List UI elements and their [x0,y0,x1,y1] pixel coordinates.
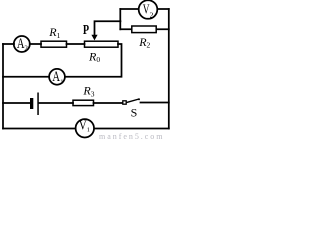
resistor R0 (rheostat body) [85,41,119,47]
wire: loop bottom edge (R2 wire) [120,28,169,30]
wire: top branch left of A2 [3,43,14,45]
voltmeter V1 [76,119,94,137]
svg-text:S: S [131,105,138,119]
wire: battery line from left rail [3,102,30,104]
ammeter A1 [49,69,65,85]
switch lever end dot [138,98,140,100]
svg-text:2: 2 [24,45,28,53]
battery cell positive long thin plate [37,93,39,116]
resistor R2 [132,26,156,33]
ammeter A2 [14,36,30,52]
wire: R1 to R0 [67,43,85,45]
svg-text:2: 2 [150,10,154,19]
wire: bottom V1 line [3,128,169,130]
wire: loop top edge [120,8,169,10]
svg-text:manfen5.com: manfen5.com [99,132,163,141]
svg-text:A: A [52,69,60,85]
switch lever [127,99,140,103]
wiper P wire with elbow to V2/R2 loop [95,21,121,36]
resistor R3 [73,100,94,105]
svg-text:V: V [79,117,87,132]
wire: right rail [168,9,170,129]
wiper arrow head [91,35,97,41]
wire: R3 to switch [94,102,124,104]
wire: switch to right rail [141,102,169,104]
svg-text:P: P [83,22,89,37]
svg-text:1: 1 [60,78,63,85]
battery cell negative short thick plate [30,98,33,109]
svg-text:1: 1 [87,127,90,134]
V2/R2 parallel loop left edge [119,9,121,29]
wire: R0 right end to down elbow [3,44,122,77]
resistor R1 [41,41,67,47]
svg-text:V: V [143,3,150,18]
voltmeter V2 [139,0,158,19]
switch hinge square [123,101,126,104]
wire: left rail [2,44,4,129]
wire: A2 to R1 [30,43,41,45]
wire: battery to R3 [39,102,74,104]
